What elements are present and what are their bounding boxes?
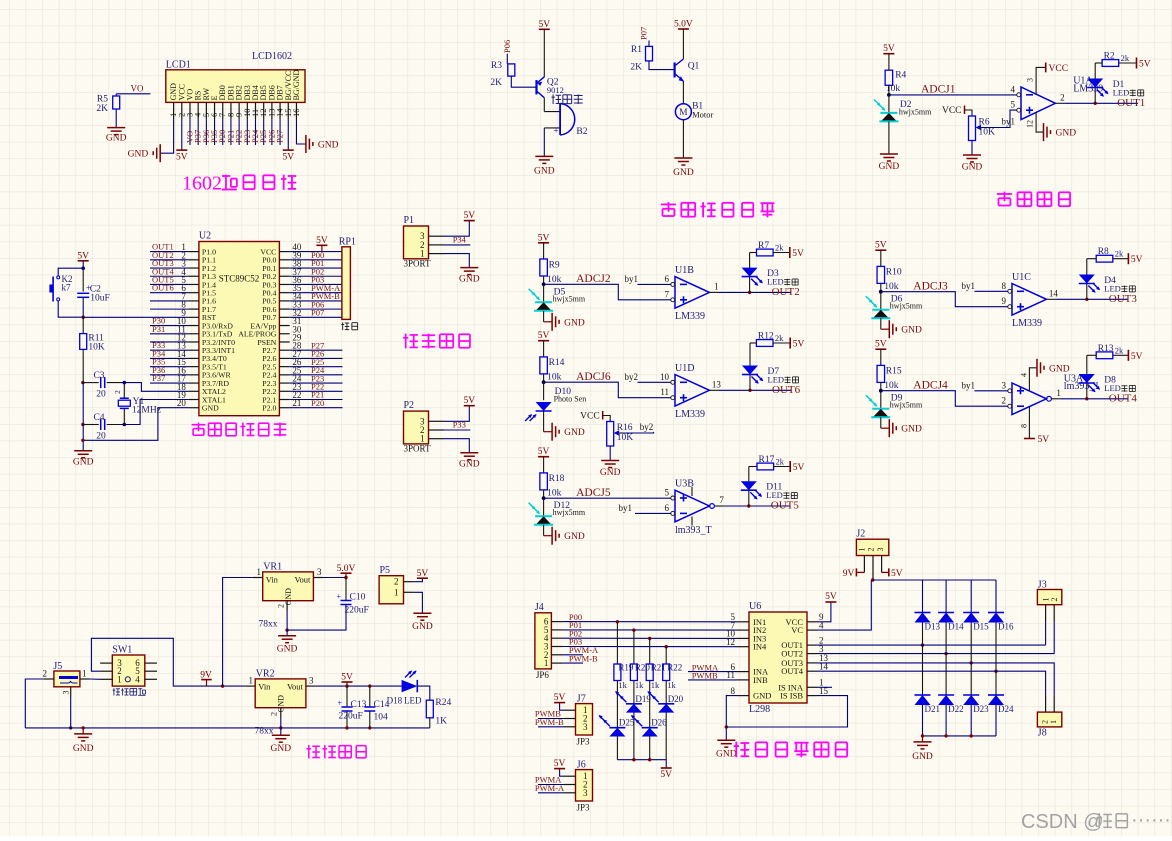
svg-text:R12: R12: [758, 332, 774, 342]
svg-text:OUT1: OUT1: [1117, 97, 1145, 109]
svg-text:GND: GND: [1049, 364, 1070, 374]
svg-text:R9: R9: [549, 260, 560, 270]
svg-text:GND: GND: [284, 588, 293, 606]
svg-text:by1: by1: [625, 274, 639, 284]
svg-text:6: 6: [665, 503, 670, 513]
svg-text:9V: 9V: [843, 569, 855, 579]
svg-text:5V: 5V: [538, 331, 550, 341]
svg-text:by2: by2: [640, 422, 654, 432]
svg-text:20: 20: [96, 390, 106, 400]
svg-text:R6: R6: [979, 118, 990, 128]
svg-text:14: 14: [1049, 288, 1059, 298]
svg-text:Vout: Vout: [287, 681, 304, 691]
svg-text:5V: 5V: [1131, 255, 1143, 265]
svg-text:GND: GND: [277, 645, 298, 655]
svg-text:LCD1: LCD1: [166, 59, 191, 70]
svg-text:M: M: [679, 108, 688, 118]
svg-text:2K: 2K: [490, 78, 502, 88]
svg-text:3: 3: [1002, 380, 1007, 390]
svg-text:5V: 5V: [1038, 435, 1050, 445]
svg-text:D21: D21: [925, 704, 941, 714]
svg-text:GND: GND: [459, 460, 480, 470]
svg-text:GND: GND: [673, 168, 694, 178]
svg-text:hwjx5mm: hwjx5mm: [553, 294, 586, 303]
svg-text:OUT4: OUT4: [781, 666, 803, 676]
svg-text:4: 4: [1019, 373, 1028, 377]
svg-text:C10: C10: [350, 593, 366, 603]
svg-text:16: 16: [291, 109, 301, 118]
svg-text:LM339: LM339: [1012, 318, 1042, 329]
svg-text:J3: J3: [1038, 579, 1047, 590]
svg-text:5V: 5V: [463, 211, 475, 221]
svg-text:D19: D19: [635, 694, 651, 704]
svg-text:VCC: VCC: [580, 412, 600, 422]
svg-text:11: 11: [660, 387, 669, 397]
svg-text:R14: R14: [549, 358, 565, 368]
svg-text:U1C: U1C: [1012, 272, 1031, 283]
svg-text:104: 104: [374, 713, 389, 723]
svg-text:ADCJ5: ADCJ5: [576, 487, 611, 499]
svg-text:Vin: Vin: [266, 574, 279, 584]
svg-text:3: 3: [1026, 78, 1035, 82]
svg-text:2K: 2K: [96, 104, 108, 114]
svg-text:4: 4: [1011, 84, 1016, 94]
svg-text:INB: INB: [753, 675, 768, 685]
svg-text:U2: U2: [199, 231, 211, 242]
svg-text:C4: C4: [93, 413, 104, 423]
svg-text:5V: 5V: [341, 673, 353, 683]
svg-text:5V: 5V: [1131, 352, 1143, 362]
svg-text:GND: GND: [879, 162, 900, 172]
svg-text:ADCJ2: ADCJ2: [576, 273, 611, 285]
svg-text:P07: P07: [311, 308, 324, 318]
svg-text:10k: 10k: [884, 282, 899, 292]
svg-text:2: 2: [1050, 598, 1059, 602]
svg-text:R15: R15: [886, 367, 902, 377]
svg-text:3PORT: 3PORT: [404, 443, 431, 453]
svg-text:BG/GND: BG/GND: [292, 70, 301, 101]
svg-text:+: +: [336, 592, 341, 601]
svg-text:LM339: LM339: [675, 311, 705, 322]
svg-text:D25: D25: [619, 718, 635, 728]
svg-text:10k: 10k: [547, 275, 562, 285]
svg-text:LED: LED: [768, 374, 785, 384]
svg-text:220uF: 220uF: [339, 712, 363, 722]
svg-text:SW1: SW1: [112, 645, 132, 656]
svg-text:Vout: Vout: [294, 574, 311, 584]
svg-text:hwjx5mm: hwjx5mm: [899, 108, 932, 117]
svg-text:GND: GND: [534, 166, 555, 176]
svg-text:10: 10: [660, 372, 670, 382]
svg-text:Q1: Q1: [688, 62, 700, 72]
svg-text:P33: P33: [453, 420, 466, 430]
svg-text:P20: P20: [311, 398, 324, 408]
svg-text:3PORT: 3PORT: [404, 258, 431, 268]
svg-text:OUT6: OUT6: [152, 283, 174, 293]
svg-text:L298: L298: [749, 704, 770, 715]
svg-text:5V: 5V: [660, 770, 672, 780]
svg-text:5: 5: [665, 488, 670, 498]
svg-text:RP1: RP1: [339, 237, 356, 248]
svg-text:VCC: VCC: [942, 106, 962, 116]
svg-text:1: 1: [858, 548, 867, 552]
svg-text:GND: GND: [318, 141, 339, 151]
svg-text:2k: 2k: [776, 457, 785, 467]
svg-text:R17: R17: [759, 455, 775, 465]
svg-text:P1: P1: [404, 215, 415, 226]
svg-text:R7: R7: [758, 241, 769, 251]
svg-text:R3: R3: [491, 61, 502, 71]
svg-text:JP3: JP3: [577, 737, 591, 747]
svg-text:ADCJ6: ADCJ6: [576, 371, 611, 383]
svg-text:hwjx5mm: hwjx5mm: [553, 508, 586, 517]
svg-text:5.0V: 5.0V: [674, 20, 693, 30]
svg-text:5V: 5V: [825, 592, 837, 602]
svg-text:5V: 5V: [538, 233, 550, 243]
svg-text:GND: GND: [564, 428, 585, 438]
svg-text:LM339: LM339: [1073, 84, 1103, 95]
svg-text:1602: 1602: [182, 173, 222, 195]
svg-text:5V: 5V: [77, 251, 89, 261]
svg-text:1: 1: [420, 249, 425, 259]
svg-text:9: 9: [1002, 296, 1007, 306]
svg-text:D20: D20: [668, 694, 684, 704]
svg-text:OUT3: OUT3: [1109, 293, 1138, 305]
svg-text:C13: C13: [351, 700, 367, 710]
svg-text:P34: P34: [453, 234, 467, 244]
svg-text:5V: 5V: [316, 236, 328, 246]
svg-text:CSDN @: CSDN @: [1021, 811, 1104, 833]
svg-text:J2: J2: [856, 529, 865, 540]
svg-text:2k: 2k: [1121, 53, 1130, 63]
svg-text:2k: 2k: [1115, 249, 1124, 259]
svg-text:7: 7: [665, 289, 670, 299]
svg-text:U3B: U3B: [675, 479, 694, 490]
svg-text:LED: LED: [1104, 283, 1121, 293]
svg-text:3: 3: [309, 676, 314, 686]
svg-text:by1: by1: [1002, 117, 1016, 127]
svg-text:Vin: Vin: [258, 681, 271, 691]
svg-text:ADCJ1: ADCJ1: [921, 84, 956, 96]
svg-text:1k: 1k: [635, 680, 644, 690]
svg-text:12MHz: 12MHz: [132, 406, 161, 416]
svg-text:R13: R13: [1098, 344, 1114, 354]
svg-text:J7: J7: [577, 693, 586, 704]
svg-text:VR2: VR2: [256, 668, 275, 679]
svg-text:5V: 5V: [875, 241, 887, 251]
svg-text:1: 1: [117, 674, 122, 684]
svg-text:78xx: 78xx: [259, 620, 278, 630]
svg-text:1: 1: [394, 587, 399, 597]
svg-text:10K: 10K: [88, 343, 105, 353]
svg-text:P5: P5: [380, 565, 391, 576]
svg-text:2: 2: [1060, 92, 1065, 102]
svg-text:VR1: VR1: [263, 561, 282, 572]
svg-text:3: 3: [583, 788, 588, 798]
svg-text:IS ISB: IS ISB: [780, 691, 803, 701]
svg-text:P2.0: P2.0: [262, 404, 276, 413]
svg-text:R1: R1: [631, 45, 642, 55]
svg-text:Motor: Motor: [692, 110, 713, 120]
svg-text:2K: 2K: [630, 62, 642, 72]
svg-text:C3: C3: [93, 371, 104, 381]
svg-text:GND: GND: [73, 744, 94, 754]
svg-text:220uF: 220uF: [345, 606, 369, 616]
svg-text:8: 8: [731, 686, 736, 696]
svg-text:by2: by2: [625, 372, 639, 382]
svg-text:5V: 5V: [883, 44, 895, 54]
svg-text:VO: VO: [131, 84, 144, 94]
svg-text:5V: 5V: [538, 20, 550, 30]
svg-text:R18: R18: [549, 474, 565, 484]
svg-text:1: 1: [714, 281, 719, 291]
svg-text:D26: D26: [651, 718, 667, 728]
svg-text:GND: GND: [128, 150, 149, 160]
svg-text:J8: J8: [1038, 728, 1047, 739]
svg-text:P31: P31: [152, 324, 165, 334]
svg-text:D23: D23: [973, 704, 989, 714]
svg-text:D22: D22: [948, 704, 964, 714]
svg-text:5V: 5V: [793, 340, 805, 350]
svg-text:GND: GND: [901, 326, 922, 336]
svg-text:lm393_T: lm393_T: [675, 525, 712, 536]
svg-text:GND: GND: [716, 750, 737, 760]
svg-text:9012: 9012: [547, 85, 564, 95]
svg-text:LED: LED: [766, 490, 783, 500]
svg-text:LED: LED: [767, 276, 784, 286]
svg-text:GND: GND: [202, 404, 219, 413]
svg-text:2: 2: [867, 548, 876, 552]
svg-text:U1D: U1D: [675, 363, 694, 374]
svg-text:J4: J4: [535, 602, 544, 613]
svg-text:5V: 5V: [554, 759, 566, 769]
svg-text:1k: 1k: [651, 680, 660, 690]
svg-text:8: 8: [1019, 424, 1028, 428]
svg-text:P37: P37: [152, 373, 165, 383]
svg-text:PWM-A: PWM-A: [535, 783, 565, 793]
svg-text:10K: 10K: [979, 128, 996, 138]
svg-text:GND: GND: [564, 532, 585, 542]
svg-text:OUT6: OUT6: [772, 384, 801, 396]
svg-text:10k: 10k: [547, 373, 562, 383]
svg-text:10k: 10k: [886, 84, 901, 94]
svg-text:C14: C14: [374, 700, 390, 710]
svg-text:2: 2: [113, 390, 122, 394]
svg-text:13: 13: [712, 379, 722, 389]
svg-text:GND: GND: [962, 163, 983, 173]
svg-text:1: 1: [82, 669, 87, 679]
svg-text:1: 1: [1056, 388, 1061, 398]
svg-text:J6: J6: [577, 759, 586, 770]
svg-text:5: 5: [1011, 100, 1016, 110]
svg-text:OUT5: OUT5: [771, 500, 800, 512]
svg-text:D16: D16: [998, 622, 1014, 632]
svg-text:by1: by1: [962, 380, 976, 390]
svg-text:hwjx5mm: hwjx5mm: [890, 401, 923, 410]
svg-text:3: 3: [583, 722, 588, 732]
svg-text:D13: D13: [925, 622, 941, 632]
svg-text:9V: 9V: [200, 670, 212, 680]
svg-text:by1: by1: [619, 503, 633, 513]
svg-text:D24: D24: [998, 704, 1014, 714]
svg-text:1: 1: [249, 676, 254, 686]
svg-text:B2: B2: [576, 127, 587, 137]
svg-text:GND: GND: [901, 425, 922, 435]
svg-text:1: 1: [1049, 720, 1058, 724]
svg-text:JP3: JP3: [577, 803, 591, 813]
svg-text:LED: LED: [1104, 383, 1121, 393]
svg-text:2k: 2k: [1115, 345, 1124, 355]
svg-text:GND: GND: [753, 691, 771, 701]
svg-text:20: 20: [96, 432, 106, 442]
svg-text:GND: GND: [1056, 129, 1077, 139]
svg-text:R4: R4: [895, 71, 906, 81]
svg-text:JP6: JP6: [536, 670, 550, 680]
svg-text:1: 1: [257, 567, 262, 577]
svg-text:VC: VC: [791, 625, 803, 635]
svg-text:10k: 10k: [547, 489, 562, 499]
svg-text:IN4: IN4: [753, 642, 767, 652]
svg-text:2: 2: [43, 669, 48, 679]
svg-text:21: 21: [292, 398, 301, 408]
svg-text:LCD1602: LCD1602: [252, 51, 292, 62]
svg-text:ADCJ3: ADCJ3: [913, 281, 948, 293]
svg-text:2: 2: [1002, 396, 1007, 406]
svg-text:12: 12: [1026, 120, 1035, 128]
svg-text:5V: 5V: [176, 153, 188, 163]
svg-text:R8: R8: [1098, 247, 1109, 257]
svg-text:10K: 10K: [617, 433, 634, 443]
svg-text:GND: GND: [412, 622, 433, 632]
svg-text:PWM-B: PWM-B: [535, 717, 564, 727]
svg-text:2: 2: [394, 577, 399, 587]
svg-text:3: 3: [317, 567, 322, 577]
svg-text:STC89C52: STC89C52: [219, 274, 260, 284]
svg-text:P07: P07: [639, 27, 649, 40]
svg-text:GND: GND: [600, 468, 621, 478]
svg-text:R24: R24: [435, 698, 451, 708]
svg-text:P2: P2: [404, 400, 415, 411]
svg-text:5V: 5V: [875, 340, 887, 350]
svg-text:1k: 1k: [618, 680, 627, 690]
svg-text:P06: P06: [502, 40, 512, 53]
svg-text:10k: 10k: [884, 381, 899, 391]
svg-text:1K: 1K: [435, 717, 447, 727]
svg-text:5V: 5V: [891, 569, 903, 579]
svg-text:LED: LED: [404, 696, 422, 706]
svg-text:2: 2: [277, 604, 286, 608]
svg-text:R10: R10: [886, 268, 902, 278]
svg-text:U6: U6: [749, 601, 761, 612]
svg-text:6: 6: [665, 274, 670, 284]
svg-text:5V: 5V: [463, 396, 475, 406]
svg-text:1: 1: [420, 434, 425, 444]
svg-text:D15: D15: [973, 622, 989, 632]
svg-text:k7: k7: [62, 283, 72, 293]
svg-text:78xx: 78xx: [255, 727, 274, 737]
svg-text:5V: 5V: [792, 249, 804, 259]
svg-text:+: +: [337, 699, 342, 708]
svg-text:Photo Sen: Photo Sen: [554, 395, 587, 404]
svg-text:R2: R2: [1104, 52, 1115, 62]
svg-text:ADCJ4: ADCJ4: [913, 380, 948, 392]
svg-text:10uF: 10uF: [90, 294, 110, 304]
svg-text:1k: 1k: [667, 680, 676, 690]
svg-text:GND: GND: [912, 752, 933, 762]
svg-text:R5: R5: [97, 95, 108, 105]
svg-text:U1B: U1B: [675, 265, 694, 276]
svg-text:OUT2: OUT2: [772, 286, 800, 298]
svg-text:5V: 5V: [282, 153, 294, 163]
svg-text:5V: 5V: [1139, 60, 1151, 70]
svg-text:3: 3: [876, 548, 885, 552]
svg-text:LM339: LM339: [675, 409, 705, 420]
svg-text:4: 4: [135, 674, 140, 684]
svg-text:D14: D14: [948, 622, 964, 632]
svg-text:GND: GND: [459, 275, 480, 285]
svg-text:GND: GND: [564, 318, 585, 328]
svg-text:GND: GND: [271, 744, 292, 754]
svg-text:P27: P27: [275, 130, 285, 143]
svg-text:2k: 2k: [775, 243, 784, 253]
svg-text:8: 8: [1002, 281, 1007, 291]
svg-text:3: 3: [62, 691, 71, 695]
svg-text:VCC: VCC: [1049, 64, 1069, 74]
svg-text:7: 7: [719, 495, 724, 505]
svg-text:R22: R22: [667, 663, 682, 673]
svg-text:+: +: [554, 126, 559, 136]
svg-text:5V: 5V: [554, 693, 566, 703]
svg-text:hwjx5mm: hwjx5mm: [890, 302, 923, 311]
svg-text:······: ······: [1131, 809, 1171, 831]
svg-text:by1: by1: [962, 281, 976, 291]
svg-text:5V: 5V: [793, 463, 805, 473]
svg-text:J5: J5: [53, 661, 62, 672]
svg-text:5V: 5V: [417, 569, 429, 579]
svg-text:5.0V: 5.0V: [337, 564, 356, 574]
svg-text:2: 2: [270, 712, 279, 716]
svg-text:2k: 2k: [775, 333, 784, 343]
svg-text:GND: GND: [106, 134, 127, 144]
svg-text:1: 1: [544, 658, 549, 668]
svg-text:OUT4: OUT4: [1109, 392, 1138, 404]
svg-text:LED: LED: [1113, 87, 1130, 97]
svg-text:GND: GND: [73, 457, 94, 467]
svg-text:5V: 5V: [538, 447, 550, 457]
svg-text:R16: R16: [617, 423, 633, 433]
